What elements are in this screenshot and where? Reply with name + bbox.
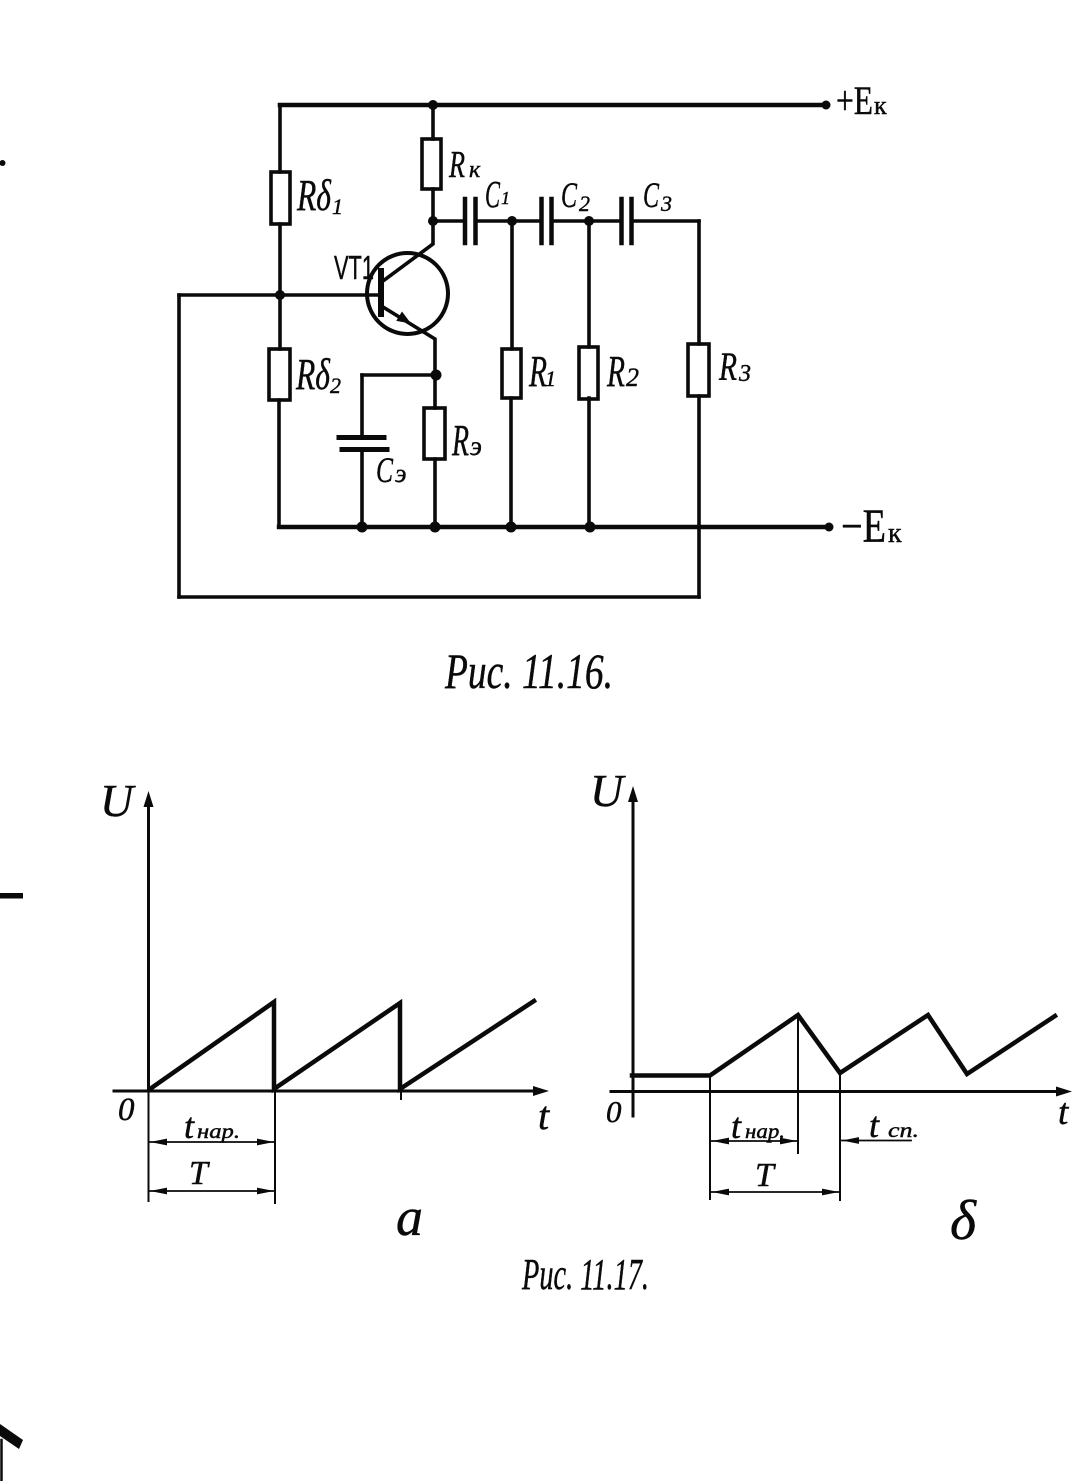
svg-text:δ: δ	[950, 1190, 977, 1252]
graph a: label t	[538, 1093, 550, 1138]
capacitor C2 right plate	[549, 199, 554, 243]
label Rk	[448, 144, 481, 186]
graph a: T right arrow	[257, 1188, 274, 1195]
stray scan dot top left	[0, 160, 6, 166]
label +Ek	[836, 78, 887, 123]
svg-text:Рис. 11.17.: Рис. 11.17.	[521, 1250, 649, 1299]
svg-text:C: C	[485, 174, 500, 216]
label R3	[718, 344, 751, 389]
svg-text:э: э	[395, 459, 406, 488]
graph b: y-axis arrowhead	[628, 786, 638, 802]
graph a: label T	[189, 1155, 210, 1192]
graph b: label 0	[606, 1094, 622, 1129]
wire emitter node to Re	[433, 375, 437, 408]
wire Re to bottom rail	[433, 459, 437, 527]
wire Ce top lead	[360, 375, 364, 436]
graph b: t_nar right arrow	[780, 1138, 797, 1145]
svg-text:T: T	[189, 1155, 210, 1192]
capacitor C3 right plate	[629, 199, 634, 243]
graph a: t_nar left arrow	[150, 1139, 167, 1146]
graph a: x-axis	[114, 1090, 541, 1093]
resistor R2	[579, 347, 598, 399]
graph b: waveform	[632, 1015, 1055, 1076]
junction collector node	[428, 216, 438, 226]
svg-text:0: 0	[118, 1092, 135, 1128]
resistor Rb1	[271, 172, 290, 224]
svg-text:t: t	[731, 1106, 742, 1146]
graph b: label T	[755, 1157, 776, 1194]
junction node B (C2/R2/C3)	[584, 216, 594, 226]
svg-text:T: T	[755, 1157, 776, 1194]
wire collector lead into transistor	[383, 221, 433, 281]
svg-text:к: к	[469, 157, 481, 183]
svg-text:2: 2	[626, 363, 639, 392]
wire R3 top lead	[697, 221, 701, 344]
graph b: dimension t_nar line	[711, 1140, 797, 1142]
wire collector node to C1	[433, 219, 463, 223]
wire C3 to R3 corner	[634, 219, 700, 223]
svg-text:1: 1	[545, 366, 556, 391]
svg-text:0: 0	[606, 1094, 622, 1129]
graph b: x-axis arrowhead	[1056, 1087, 1072, 1097]
wire top rail to Rk	[431, 105, 435, 139]
svg-text:2: 2	[579, 191, 590, 216]
label C3	[643, 175, 672, 216]
caption Ris. 11.17.	[521, 1250, 649, 1299]
graph b: y-axis	[632, 793, 635, 1116]
capacitor Ce bottom plate	[342, 447, 387, 452]
graph a: label a	[396, 1187, 423, 1247]
transistor VT1 emitter lead	[383, 307, 435, 375]
wire -Ek bottom rail	[279, 525, 829, 529]
transistor VT1 base bar	[378, 271, 384, 314]
wire emitter node to Ce branch	[362, 373, 436, 377]
graph b: T right arrow	[822, 1189, 839, 1196]
wire node B to C3	[589, 219, 620, 223]
junction top rail / Rk	[428, 100, 438, 110]
svg-text:U: U	[100, 775, 136, 826]
graph a: dimension t_nar line	[149, 1141, 274, 1143]
svg-text:R: R	[718, 344, 737, 389]
junction emitter node	[431, 370, 442, 381]
wire C2 to node B	[554, 219, 590, 223]
stray scan dash left edge	[0, 893, 23, 899]
wire base node to Rb2	[278, 295, 282, 349]
junction R2 / bottom rail	[585, 522, 596, 533]
wire node A to R1	[510, 221, 514, 349]
svg-text:U: U	[590, 765, 626, 816]
graph b: label t	[1058, 1092, 1070, 1133]
label -Ek	[841, 500, 902, 553]
svg-text:сп.: сп.	[888, 1118, 919, 1142]
graph b: label t_sp	[869, 1105, 919, 1145]
graph a: drop edge tick below axis	[400, 1091, 402, 1099]
resistor Rk	[422, 139, 441, 189]
graph a: label 0	[118, 1092, 135, 1128]
label Rb1	[296, 171, 343, 220]
wire R1 to bottom rail	[509, 398, 513, 527]
svg-text:−E: −E	[841, 500, 886, 553]
graph a: label t_nar	[184, 1106, 240, 1146]
wire C1 to node A	[478, 219, 513, 223]
svg-text:Рис. 11.16.: Рис. 11.16.	[444, 643, 613, 699]
transistor VT1 emitter arrow	[396, 312, 411, 324]
svg-text:R: R	[448, 144, 465, 186]
wire feedback loop left vertical	[177, 295, 181, 597]
graph b: t_sp left arrow	[842, 1137, 859, 1144]
graph b: T left arrow	[712, 1189, 729, 1196]
svg-text:1: 1	[501, 188, 510, 208]
graph a: label U	[100, 775, 136, 826]
svg-text:к: к	[888, 518, 902, 549]
graph a: extension line at first period end	[274, 1089, 276, 1203]
svg-text:1: 1	[332, 194, 343, 219]
graph b: extension line at peak	[797, 1015, 799, 1153]
capacitor C1 left plate	[463, 199, 468, 243]
graph b: x-axis	[611, 1090, 1064, 1093]
resistor Re	[424, 408, 445, 459]
wire base lead	[179, 293, 379, 297]
svg-text:2: 2	[330, 373, 341, 398]
svg-text:VT1: VT1	[334, 249, 374, 286]
graph a: T left arrow	[150, 1188, 167, 1195]
svg-text:R: R	[451, 416, 469, 465]
wire R2 to bottom rail	[587, 398, 591, 527]
junction Re / bottom rail	[430, 522, 441, 533]
stray scan line bottom left	[0, 1440, 3, 1481]
junction base node	[275, 290, 285, 300]
svg-text:t: t	[184, 1106, 195, 1146]
svg-text:э: э	[470, 431, 482, 461]
graph b: label t_nar	[731, 1106, 785, 1146]
wire R3 to feedback loop (crosses rail)	[697, 396, 701, 597]
wire node A to C2	[512, 219, 540, 223]
resistor Rb2	[269, 349, 290, 400]
capacitor C3 left plate	[619, 199, 624, 243]
label C1	[485, 174, 510, 216]
graph a: extension line below y-axis	[148, 1091, 150, 1201]
junction R1 / bottom rail	[506, 522, 517, 533]
label Rb2	[295, 350, 341, 399]
graph a: dimension T line	[149, 1190, 274, 1192]
graph a: y-axis	[147, 798, 150, 1091]
label R1	[528, 347, 556, 396]
svg-text:t: t	[538, 1093, 550, 1138]
label R2	[606, 347, 639, 396]
transistor VT1	[367, 253, 448, 334]
svg-text:Rδ: Rδ	[296, 171, 332, 220]
resistor R3	[688, 344, 709, 396]
svg-text:к: к	[874, 91, 887, 120]
wire node B to R2	[587, 221, 591, 347]
resistor R1	[502, 349, 521, 398]
svg-text:a: a	[396, 1187, 423, 1247]
label C2	[561, 175, 590, 216]
node +Ek terminal dot	[822, 101, 831, 110]
wire Rk to collector node	[431, 189, 435, 221]
label Ce	[376, 450, 406, 490]
graph a: t_nar right arrow	[257, 1139, 274, 1146]
graph b: t_nar left arrow	[712, 1138, 729, 1145]
stray scan wedge bottom left	[0, 1424, 23, 1449]
graph b: label U	[590, 765, 626, 816]
capacitor C1 right plate	[473, 199, 478, 243]
capacitor C2 left plate	[539, 199, 544, 243]
wire feedback loop bottom	[179, 595, 699, 599]
graph a: sawtooth waveform	[150, 1001, 534, 1089]
svg-text:3: 3	[738, 361, 751, 387]
junction Ce / bottom rail	[357, 522, 368, 533]
svg-text:нар.: нар.	[745, 1119, 785, 1143]
svg-text:нар.: нар.	[197, 1119, 240, 1143]
label VT1	[334, 249, 374, 286]
graph b: label b	[950, 1190, 977, 1252]
junction node A (C1/R1/C2)	[507, 216, 517, 226]
svg-text:t: t	[1058, 1092, 1070, 1133]
label Re	[451, 416, 482, 465]
svg-text:C: C	[643, 175, 660, 215]
graph b: extension line at valley	[839, 1073, 841, 1200]
wire top rail to Rb1	[278, 105, 282, 172]
wire +Ek top rail	[280, 103, 826, 108]
svg-text:C: C	[376, 450, 394, 490]
wire Rb1 to base node	[278, 224, 282, 295]
svg-text:C: C	[561, 175, 578, 215]
caption Ris. 11.16.	[444, 643, 613, 699]
svg-text:Rδ: Rδ	[295, 350, 331, 399]
graph a: x-axis arrowhead	[533, 1086, 549, 1096]
wire Ce bottom lead	[360, 451, 364, 527]
svg-text:+E: +E	[836, 78, 873, 123]
graph b: dimension T line	[711, 1191, 839, 1193]
graph b: extension line at ramp start	[709, 1076, 711, 1199]
wire Rb2 to bottom rail	[277, 400, 281, 527]
graph b: dimension t_sp line	[842, 1140, 911, 1142]
node -Ek terminal dot	[825, 523, 834, 532]
svg-text:t: t	[869, 1105, 880, 1145]
svg-text:3: 3	[660, 191, 672, 216]
capacitor Ce top plate	[339, 435, 384, 440]
svg-text:R: R	[606, 347, 625, 396]
graph a: y-axis arrowhead	[144, 791, 154, 807]
